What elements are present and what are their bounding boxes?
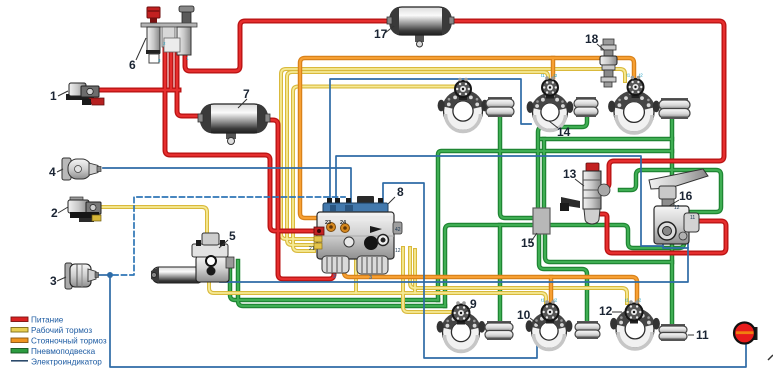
svg-text:t2: t2	[639, 73, 643, 78]
svg-text:t2: t2	[638, 298, 642, 303]
svg-text:Пневмоподвеска: Пневмоподвеска	[31, 347, 96, 356]
svg-text:t1: t1	[627, 73, 631, 78]
svg-text:16: 16	[679, 189, 693, 203]
svg-text:7: 7	[243, 87, 250, 101]
svg-text:Электроиндикатор: Электроиндикатор	[31, 358, 102, 367]
svg-text:6: 6	[129, 58, 136, 72]
svg-text:t1: t1	[541, 73, 545, 78]
svg-text:12: 12	[599, 304, 613, 318]
svg-text:15: 15	[521, 236, 535, 250]
svg-text:10: 10	[517, 308, 531, 322]
svg-text:12: 12	[395, 248, 401, 254]
svg-text:24: 24	[340, 220, 347, 226]
svg-text:Питание: Питание	[31, 316, 64, 325]
svg-text:4: 4	[49, 165, 56, 179]
svg-text:t1: t1	[625, 298, 629, 303]
svg-text:5: 5	[229, 229, 236, 243]
svg-text:8: 8	[397, 185, 404, 199]
svg-text:42: 42	[395, 227, 401, 233]
svg-text:11: 11	[690, 215, 695, 221]
svg-text:23: 23	[325, 220, 331, 226]
svg-text:13: 13	[563, 167, 577, 181]
svg-text:17: 17	[374, 27, 388, 41]
svg-text:11: 11	[696, 328, 709, 342]
svg-text:1: 1	[50, 89, 57, 103]
svg-text:t2: t2	[554, 73, 558, 78]
svg-text:3: 3	[369, 275, 372, 281]
svg-text:Стояночный тормоз: Стояночный тормоз	[31, 337, 107, 346]
svg-text:9: 9	[470, 297, 477, 311]
svg-text:t1: t1	[541, 298, 545, 303]
svg-text:3: 3	[50, 274, 57, 288]
svg-text:21: 21	[309, 246, 315, 252]
svg-text:14: 14	[557, 125, 571, 139]
svg-text:3: 3	[333, 274, 336, 280]
svg-text:t2: t2	[554, 298, 558, 303]
svg-text:12: 12	[674, 205, 680, 211]
svg-text:2: 2	[51, 206, 58, 220]
svg-text:18: 18	[585, 32, 599, 46]
svg-text:Рабочий тормоз: Рабочий тормоз	[31, 326, 92, 335]
